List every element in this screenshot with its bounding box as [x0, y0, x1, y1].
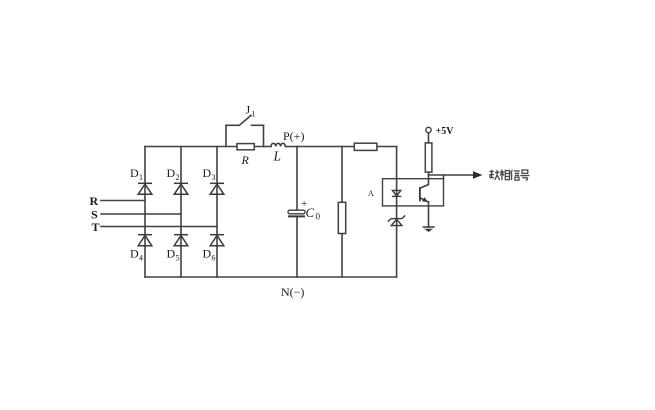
svg-text:R: R: [241, 153, 250, 167]
svg-text:4: 4: [139, 254, 143, 263]
svg-text:D: D: [203, 247, 212, 261]
svg-text:5: 5: [176, 254, 180, 263]
svg-text:D: D: [203, 166, 212, 180]
svg-text:L: L: [273, 149, 282, 164]
svg-text:D: D: [167, 247, 176, 261]
svg-text:3: 3: [212, 173, 216, 182]
svg-text:T: T: [92, 220, 100, 234]
svg-text:R: R: [90, 194, 99, 208]
svg-text:A: A: [368, 189, 374, 198]
svg-text:D: D: [167, 166, 176, 180]
svg-text:0: 0: [316, 212, 321, 222]
svg-text:6: 6: [212, 254, 216, 263]
svg-text:J: J: [246, 103, 251, 117]
svg-text:D: D: [130, 247, 139, 261]
svg-text:2: 2: [176, 173, 180, 182]
svg-text:1: 1: [252, 110, 256, 119]
svg-text:+5V: +5V: [436, 126, 455, 137]
svg-text:N(−): N(−): [281, 285, 304, 299]
svg-text:D: D: [130, 166, 139, 180]
svg-text:1: 1: [139, 173, 143, 182]
svg-text:P(+): P(+): [283, 129, 304, 143]
svg-text:C: C: [306, 205, 315, 220]
